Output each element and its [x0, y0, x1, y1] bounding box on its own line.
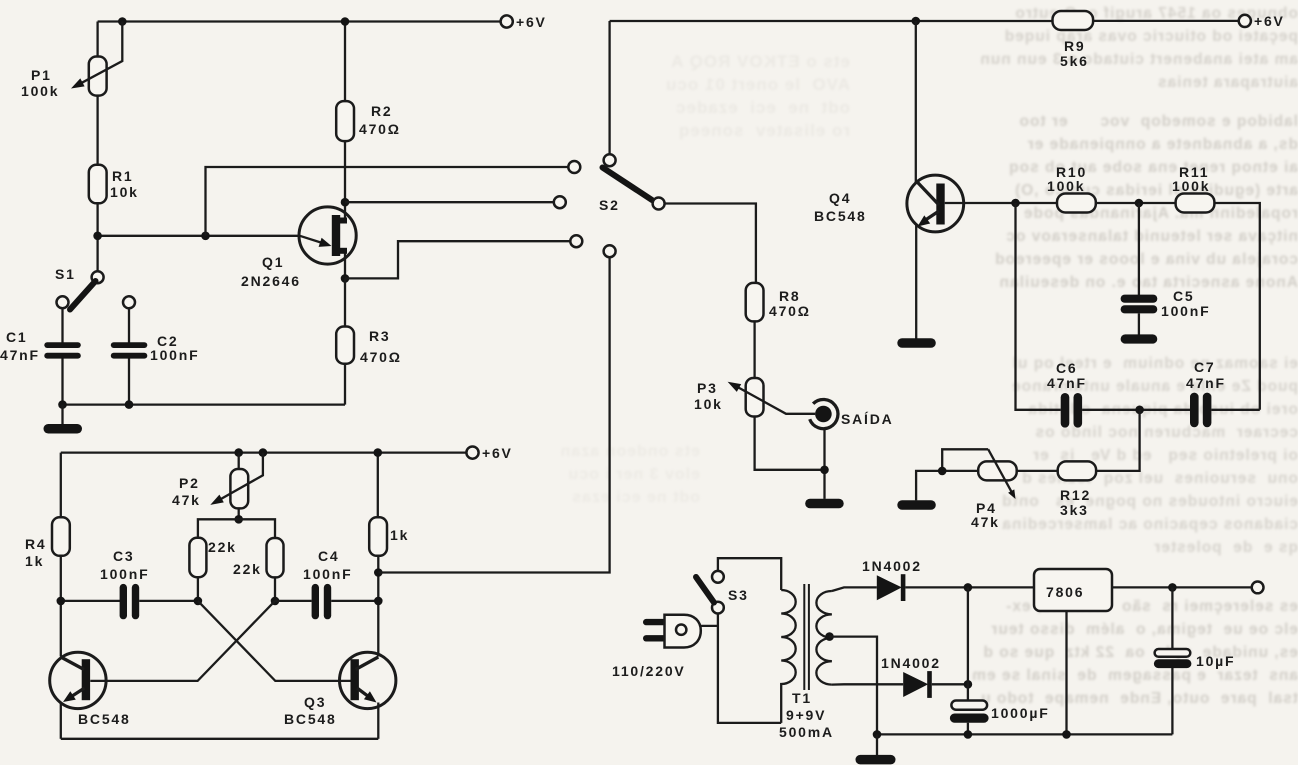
capacitor C5 lower stub — [1138, 313, 1140, 334]
transistor Q3 collector stroke — [356, 657, 379, 670]
capacitor 10uF plates — [1155, 649, 1191, 657]
capacitor C3 plates — [120, 584, 127, 619]
wire C3 to base node — [139, 600, 198, 602]
svg-text:BC548: BC548 — [78, 711, 131, 727]
svg-text:100k: 100k — [1047, 178, 1085, 194]
switch S1 lever — [70, 281, 96, 310]
svg-text:10µF: 10µF — [1196, 653, 1235, 669]
capacitor C5 plates — [1121, 295, 1158, 303]
wire Q4 emitter to ground — [915, 225, 917, 339]
capacitor C5 wire — [1138, 203, 1140, 295]
svg-text:SAÍDA: SAÍDA — [841, 411, 894, 427]
node C4 / 22k right — [271, 597, 280, 606]
node jack ground — [820, 466, 829, 475]
transistor Q2 circle — [50, 652, 106, 708]
svg-text:R1: R1 — [112, 168, 134, 184]
plug body — [665, 615, 701, 648]
transistor Q4 base bar — [936, 184, 944, 225]
node P2 wiper tie rail — [259, 448, 268, 457]
potentiometer P3 wiper arrow to jack — [738, 387, 816, 414]
resistor R10 — [1057, 194, 1096, 213]
resistor R9 — [1053, 11, 1094, 30]
svg-text:1N4002: 1N4002 — [881, 655, 941, 671]
svg-text:R4: R4 — [25, 536, 47, 552]
svg-text:10k: 10k — [110, 184, 139, 200]
svg-text:500mA: 500mA — [779, 724, 834, 740]
svg-text:1000µF: 1000µF — [991, 705, 1050, 721]
switch S3 lower contact — [712, 602, 724, 614]
switch S2 throw contact — [653, 198, 665, 210]
svg-text:Q1: Q1 — [262, 254, 284, 270]
potentiometer P1 body — [89, 57, 107, 96]
svg-text:BC548: BC548 — [814, 208, 867, 224]
wire C6 to node — [1082, 409, 1190, 411]
plug prong lower — [643, 635, 667, 641]
transistor Q1 circle — [299, 207, 356, 264]
svg-text:100nF: 100nF — [303, 566, 352, 582]
svg-text:470Ω: 470Ω — [360, 349, 402, 365]
svg-text:110/220V: 110/220V — [612, 663, 686, 679]
node rectifier output — [964, 583, 973, 592]
+6V terminal circle (multivibrator) — [466, 447, 478, 459]
node P2 top — [234, 448, 243, 457]
node C6/C7/R12 — [1135, 406, 1144, 415]
node 1000uF bottom — [964, 730, 973, 739]
svg-text:C3: C3 — [113, 548, 135, 564]
node Q1 B2 — [341, 198, 350, 207]
transistor Q2 collector stroke — [61, 657, 84, 670]
svg-text:9+9V: 9+9V — [786, 707, 826, 723]
svg-text:BC548: BC548 — [284, 711, 337, 727]
svg-text:C5: C5 — [1173, 288, 1195, 304]
node R4/C3 — [57, 597, 66, 606]
svg-text:C1: C1 — [6, 329, 28, 345]
wire ground stub — [876, 734, 878, 755]
node 10uF top — [1168, 583, 1177, 592]
wire C4 row — [275, 600, 378, 602]
resistor R4 — [52, 517, 70, 556]
wire C7 to right corner — [1211, 409, 1259, 411]
node emitter row to S2 top feed — [201, 232, 210, 241]
wire 7806 common pin — [1065, 611, 1067, 734]
ground C5 — [1121, 334, 1158, 343]
wire R2 branch — [344, 22, 346, 279]
wire Q2 collector row — [61, 600, 120, 602]
capacitor C2 wires — [128, 308, 130, 404]
potentiometer P3 body — [746, 378, 764, 417]
wire secondary bottom to D2 — [832, 683, 903, 686]
transistor Q1 emitter arrow — [300, 236, 322, 243]
svg-text:1N4002: 1N4002 — [862, 558, 922, 574]
switch S1 lower contact — [57, 296, 69, 308]
potentiometer P4 body — [978, 461, 1017, 480]
svg-text:R12: R12 — [1060, 487, 1091, 503]
switch S2 lever — [603, 168, 653, 201]
svg-text:R2: R2 — [371, 103, 393, 119]
node ground rail left — [873, 730, 882, 739]
svg-text:100nF: 100nF — [1161, 303, 1210, 319]
resistor R11 — [1176, 194, 1215, 213]
svg-text:10k: 10k — [694, 396, 723, 412]
regulator 7806 box — [1034, 569, 1112, 611]
node R1 bottom — [93, 232, 102, 241]
wire R3 branch — [344, 278, 346, 404]
resistor R3 — [336, 327, 354, 364]
wire 1k branch — [377, 453, 380, 657]
svg-text:Q4: Q4 — [829, 190, 851, 206]
diode D1 1N4002 — [877, 575, 902, 600]
svg-text:470Ω: 470Ω — [359, 121, 401, 137]
svg-text:Q3: Q3 — [304, 694, 326, 710]
svg-text:2N2646: 2N2646 — [241, 273, 301, 289]
ground supply — [856, 755, 896, 765]
ground Q4 emitter — [897, 338, 936, 348]
plug hole — [676, 625, 686, 635]
svg-text:+6V: +6V — [1254, 13, 1285, 29]
svg-text:7806: 7806 — [1046, 584, 1084, 600]
wire Q3 emitter down — [377, 703, 379, 739]
switch S1 upper contact — [92, 271, 104, 283]
switch S2 contact from UJT emitter row — [568, 161, 580, 173]
node rail to Q4 collector — [912, 17, 921, 26]
wire left branch P1/R1 vertical — [96, 22, 98, 272]
transistor Q2 emitter arrow — [72, 688, 85, 696]
wire cross coupling right-to-Q2 — [90, 601, 275, 681]
wire emitter row — [98, 235, 300, 237]
svg-text:22k: 22k — [208, 539, 237, 555]
output jack SAIDA inner pin — [815, 406, 832, 423]
node Q3 collector — [374, 597, 383, 606]
wire multivibrator +6V rail — [61, 451, 467, 453]
svg-text:100nF: 100nF — [100, 566, 149, 582]
svg-text:100k: 100k — [21, 83, 59, 99]
wire S2 to R8 — [665, 204, 756, 283]
+6V terminal circle (left oscillator) — [501, 15, 513, 27]
capacitor C2 plates — [111, 342, 148, 348]
wire rectifier vertical — [967, 587, 969, 700]
node D2 cathode junction — [964, 680, 973, 689]
transformer T1 core — [804, 584, 809, 690]
svg-text:R9: R9 — [1064, 38, 1086, 54]
wire 22k right lead down — [274, 577, 276, 601]
switch S2 contact from multivibrator — [604, 245, 616, 257]
potentiometer P4 wiper — [942, 449, 1012, 492]
wire Q4 collector — [915, 21, 917, 183]
svg-text:22k: 22k — [233, 561, 262, 577]
switch S2 contact from UJT B1 — [570, 235, 582, 247]
+6V terminal circle (right) — [1239, 15, 1251, 27]
svg-text:47k: 47k — [971, 514, 1000, 530]
node P2 bottom — [234, 515, 243, 524]
resistor R8 — [746, 283, 764, 322]
transformer center tap node — [825, 632, 834, 641]
svg-text:P1: P1 — [31, 67, 52, 83]
node C3 / 22k left — [194, 597, 203, 606]
wire R8 to P3 — [753, 321, 755, 378]
wire R10 to R11 — [1096, 202, 1176, 204]
switch S3 lever — [696, 577, 714, 603]
transistor Q4 emitter arrow — [926, 211, 939, 220]
resistor 22k right — [267, 538, 284, 577]
wire AF branch vertical — [1016, 203, 1061, 410]
ground output jack — [805, 499, 844, 509]
node 1k top — [374, 448, 383, 457]
svg-text:47k: 47k — [172, 492, 201, 508]
svg-text:47nF: 47nF — [1186, 375, 1226, 391]
transistor Q1 B2 jog — [339, 218, 347, 224]
svg-text:S2: S2 — [599, 197, 620, 213]
wire S3 to transformer primary — [718, 558, 781, 590]
wire P3 bottom to ground node — [755, 417, 825, 470]
node P1 wiper to rail — [118, 17, 127, 26]
resistor 22k left — [189, 538, 206, 577]
svg-text:C6: C6 — [1056, 360, 1078, 376]
wire output to S2 — [378, 257, 609, 572]
node C1 bottom — [58, 400, 67, 409]
plug prong upper — [643, 619, 667, 625]
svg-text:5k6: 5k6 — [1060, 53, 1089, 69]
capacitor C7 plates — [1190, 393, 1199, 428]
svg-text:C4: C4 — [318, 548, 340, 564]
transformer T1 primary winding — [781, 590, 796, 723]
potentiometer P2 body — [230, 469, 248, 508]
svg-text:S1: S1 — [55, 266, 76, 282]
node Q1 B1 — [341, 274, 350, 283]
svg-text:100k: 100k — [1172, 178, 1210, 194]
wire Q2 emitter down — [60, 703, 62, 739]
svg-text:T1: T1 — [792, 690, 812, 706]
svg-text:100nF: 100nF — [150, 347, 199, 363]
node R2 top — [341, 17, 350, 26]
wire R4 branch — [60, 453, 62, 657]
node multivibrator output — [374, 568, 383, 577]
wire S2 pole riser from +6V rail — [608, 21, 610, 154]
wire 1000uF to ground rail — [967, 723, 969, 735]
wire P2 to 22k pair — [198, 519, 275, 538]
resistor R1 — [89, 165, 107, 204]
transistor Q1 B1 jog — [339, 248, 347, 254]
node 7806 common bottom — [1062, 730, 1071, 739]
svg-text:P2: P2 — [179, 475, 200, 491]
svg-text:R8: R8 — [779, 288, 801, 304]
wire D2 to filter node — [932, 683, 968, 685]
switch S3 upper contact — [712, 571, 724, 583]
transistor Q1 base bar — [332, 215, 340, 256]
wire cross coupling left-to-Q3 — [198, 601, 351, 681]
transistor Q4 collector stroke — [916, 181, 939, 206]
output terminal circle — [1252, 582, 1264, 594]
transistor Q2 base bar — [82, 659, 90, 700]
output jack SAIDA outer ring — [810, 399, 838, 428]
wire plug to S3 and down — [701, 614, 781, 723]
capacitor C2 open terminal — [123, 296, 135, 308]
node P4 wiper tie — [938, 467, 947, 476]
transistor Q3 base bar — [351, 659, 359, 700]
wire P2 stem — [238, 453, 240, 520]
svg-text:+6V: +6V — [482, 445, 513, 461]
resistor 1k right — [369, 517, 387, 556]
transformer T1 secondary winding — [816, 591, 832, 685]
transistor Q3 emitter arrow — [357, 688, 368, 696]
wire secondary top to D1 — [832, 587, 877, 591]
ground P4 — [897, 500, 936, 510]
wire to S2 top contact — [206, 167, 569, 236]
wire center tap to ground rail — [830, 637, 878, 735]
node base row / AF branch — [1011, 199, 1020, 208]
svg-text:P3: P3 — [697, 380, 718, 396]
wire 10uF branch — [1171, 587, 1173, 649]
wire multivibrator ground rail — [61, 738, 379, 740]
wire supply ground rail — [877, 733, 1172, 735]
svg-text:S3: S3 — [728, 587, 749, 603]
svg-text:C7: C7 — [1194, 359, 1216, 375]
wire R12 to P4 — [1017, 470, 1058, 472]
potentiometer P1 wiper arrow — [78, 22, 122, 85]
ground below C1 — [61, 405, 63, 425]
wire 22k left lead down — [197, 577, 199, 601]
svg-text:47nF: 47nF — [0, 347, 40, 363]
wire B2 to S2 middle contact — [345, 201, 554, 203]
svg-text:47nF: 47nF — [1047, 375, 1087, 391]
capacitor 1000uF plates — [951, 701, 987, 710]
capacitor C1 wires — [61, 308, 63, 404]
resistor R2 — [336, 101, 354, 141]
wire +6V top-left rail — [98, 20, 501, 22]
svg-text:R3: R3 — [369, 328, 391, 344]
switch S2 contact from UJT B2 — [554, 196, 566, 208]
wire R11 to right corner down — [1214, 203, 1259, 410]
wire oscillator bottom return — [63, 403, 346, 405]
svg-text:470Ω: 470Ω — [769, 303, 811, 319]
diode D2 1N4002 — [903, 672, 928, 697]
resistor R12 — [1058, 461, 1096, 480]
wire +6V top-right rail — [610, 20, 1239, 22]
wire P4 left terminal — [916, 471, 978, 501]
wire 10uF to rail corner — [1171, 668, 1173, 734]
svg-text:1k: 1k — [390, 527, 409, 543]
transistor Q3 circle — [340, 652, 396, 708]
svg-text:+6V: +6V — [516, 14, 547, 30]
wire node down to R12 — [1096, 410, 1140, 471]
wire 7806 output — [1112, 586, 1252, 588]
node C5 top — [1135, 199, 1144, 208]
capacitor C1 plates — [44, 342, 81, 348]
transistor Q4 circle — [907, 175, 964, 232]
potentiometer P2 wiper arrow — [218, 453, 263, 501]
capacitor C4 plates — [312, 584, 319, 619]
svg-text:1k: 1k — [25, 553, 44, 569]
switch S2 pole circle — [604, 154, 616, 166]
wire Q4 base row — [945, 202, 1057, 204]
wire jack sleeve to ground — [823, 429, 825, 499]
node C2 bottom — [125, 400, 134, 409]
wire D1 to 7806 — [905, 586, 1034, 588]
capacitor C6 plates — [1061, 393, 1070, 428]
svg-text:3k3: 3k3 — [1060, 502, 1089, 518]
wire B1 to S2 lower contact — [345, 241, 570, 278]
